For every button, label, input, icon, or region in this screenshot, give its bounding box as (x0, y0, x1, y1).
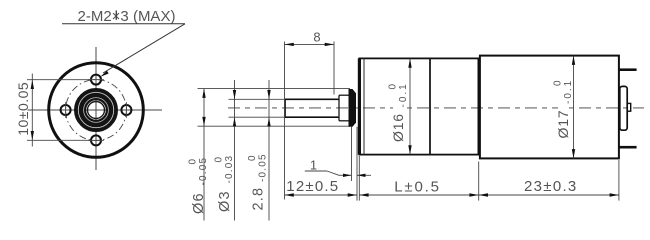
svg-text:Ø6: Ø6 (191, 192, 207, 214)
center boss heavy annulus (80, 94, 112, 126)
svg-text:10±0.05: 10±0.05 (15, 82, 31, 136)
dimension line D3 (234, 80, 236, 221)
arrow down of D17 (572, 149, 575, 158)
boss ring highlight outer (78, 92, 113, 127)
label 2.8 tolerance (247, 153, 269, 210)
dimension 10±0.05 (27, 74, 90, 147)
arrow right of 23 (610, 193, 619, 196)
arrow down of D6 (202, 117, 205, 126)
arrow up of D17 (572, 56, 575, 65)
tick through left hole (65, 102, 67, 118)
mounting hole bottom (91, 135, 101, 145)
extension line motor front (478, 162, 480, 201)
leader underline (62, 23, 185, 25)
svg-text:0: 0 (247, 155, 258, 161)
svg-text:0: 0 (553, 80, 564, 86)
svg-text:L±0.5: L±0.5 (394, 178, 440, 195)
svg-text:Ø16: Ø16 (390, 113, 406, 142)
svg-text:8: 8 (313, 30, 320, 45)
svg-text:Ø3: Ø3 (217, 190, 233, 212)
extension line end of flat (333, 42, 335, 95)
arrow up of D16 (408, 58, 411, 67)
svg-text:1: 1 (310, 158, 317, 173)
arrow left of L (359, 193, 368, 196)
arrow down of D16 (408, 145, 411, 154)
output shaft flat section (285, 99, 339, 117)
arrow right of L (469, 193, 478, 196)
dimension line 10±0.05 (31, 74, 33, 147)
shaft tip end line (284, 99, 286, 117)
svg-text:2.8: 2.8 (251, 187, 267, 211)
dimension 8 (285, 42, 335, 200)
tick through bottom hole (88, 139, 104, 141)
mounting hole right (121, 105, 131, 115)
arrow left of 23 (479, 193, 488, 196)
svg-text:23±0.3: 23±0.3 (524, 178, 578, 195)
arrow line left of 1 (339, 174, 352, 176)
label D6 tolerance (188, 157, 210, 214)
dimension line 2.8 (268, 80, 270, 221)
dimension line 12±0.5 (285, 194, 358, 196)
gearbox case seam (429, 58, 431, 154)
svg-text:12±0.5: 12±0.5 (286, 178, 339, 195)
boss ring highlight inner (84, 98, 109, 123)
gearbox outer circle (49, 63, 144, 158)
svg-text:Ø17: Ø17 (555, 110, 571, 139)
extension line flange left (351, 127, 353, 181)
dimension line D6 (203, 89, 205, 221)
arrow right of 12 (348, 193, 357, 196)
bend of 1 leader (327, 171, 339, 175)
arrow tail right of 1 (357, 174, 371, 176)
svg-text:0: 0 (188, 159, 199, 165)
dimension line 23±0.3 (479, 194, 619, 196)
svg-text:-0.1: -0.1 (563, 79, 574, 104)
gearbox faceplate seam (363, 58, 365, 154)
arrow down-onto of D3 top (233, 90, 236, 99)
arrow left of 12 (285, 193, 294, 196)
tick through right hole (125, 102, 127, 118)
bottom dimension row (285, 160, 619, 201)
svg-text:-0.05: -0.05 (198, 157, 209, 186)
motor body (480, 56, 619, 159)
svg-text:0: 0 (214, 157, 225, 163)
shaft bottom flat line (285, 116, 339, 118)
shaft top flat line (285, 98, 339, 100)
collar bottom (339, 120, 349, 122)
leader diagonal (103, 24, 185, 73)
tick through top hole (88, 79, 104, 81)
gearbox front faceplate thick edge (358, 58, 361, 154)
leader arrowhead (100, 71, 109, 77)
gearbox body (359, 58, 478, 154)
arrow left-pointing of 1 (357, 174, 366, 177)
mounting hole top (91, 75, 101, 85)
vertical centerline of front view (95, 47, 97, 170)
label D3 tolerance (214, 155, 236, 212)
arrow up of D6 (202, 89, 205, 98)
rear shaft nub (627, 103, 631, 111)
mounting hole left (61, 105, 71, 115)
horizontal centerline of front view (28, 109, 163, 111)
arrow down of 10±0.05 (31, 131, 34, 140)
rear bearing cap (620, 86, 627, 130)
svg-text:-0.05: -0.05 (258, 153, 269, 182)
arrow left of 8 (285, 43, 294, 46)
star overstrike on multiplication sign (115, 11, 117, 20)
shaft circle (88, 102, 105, 119)
extension line boss dia top (198, 88, 351, 90)
terminal bottom (619, 146, 637, 149)
bolt circle (dash-dot) (66, 80, 127, 141)
extension line flange right / 12 boundary (356, 127, 358, 201)
arrow up-onto of 2.8 bottom (267, 117, 270, 126)
arrow up-onto of D3 bottom (233, 117, 236, 126)
arrow up of 10±0.05 (31, 80, 34, 89)
arrow right of 8 (325, 43, 334, 46)
extension line boss dia bottom (198, 125, 351, 127)
arrow right-pointing of 1 (343, 174, 352, 177)
label D16 tolerance (388, 82, 410, 143)
collar top (339, 94, 349, 96)
extension line shaft dia bottom (229, 116, 286, 118)
svg-text:-0.03: -0.03 (224, 155, 235, 184)
label D17 tolerance (553, 79, 575, 140)
dimension line D17 (573, 56, 575, 159)
underline of 1 (305, 170, 327, 172)
extension line shaft tip (284, 42, 286, 200)
collar step (338, 95, 340, 121)
arrow down-onto of 2.8 top (267, 90, 270, 99)
dimension line D16 (409, 58, 411, 154)
extension line gearbox face (358, 156, 360, 201)
svg-text:2-M2×3 (MAX): 2-M2×3 (MAX) (78, 8, 176, 25)
extension line motor rear (618, 160, 620, 201)
terminal top (619, 68, 637, 71)
main centerline (dash-dot) (228, 107, 644, 109)
extension line top hole (27, 79, 90, 81)
svg-text:-0.1: -0.1 (398, 82, 409, 107)
extension line bottom hole (27, 139, 90, 141)
svg-text:0: 0 (388, 84, 399, 90)
dimension line L±0.5 (359, 194, 478, 196)
mounting flange (filled) (349, 89, 357, 127)
dimension line 8 (285, 43, 335, 45)
extension line shaft dia top (229, 98, 286, 100)
